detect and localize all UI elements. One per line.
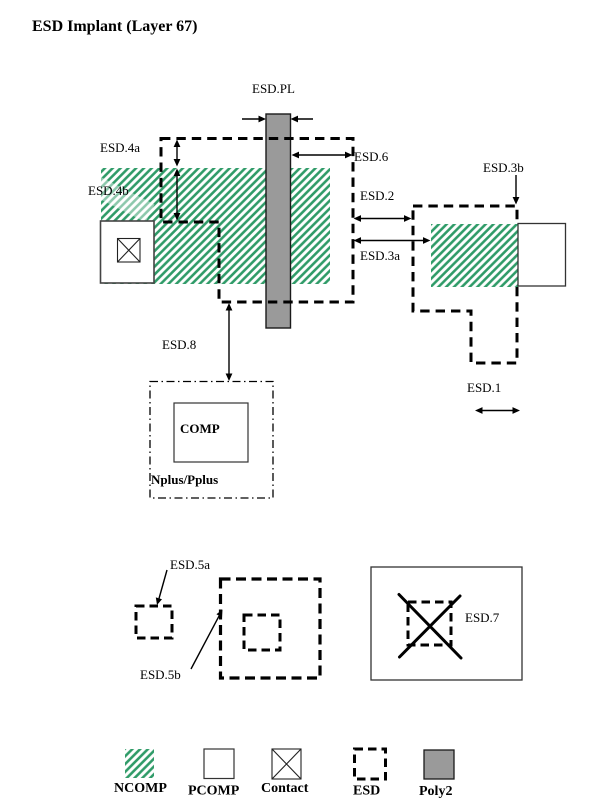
- arrow ESD.4a vertical: [174, 140, 181, 167]
- svg-text:ESD.5b: ESD.5b: [140, 667, 181, 682]
- svg-text:ESD.7: ESD.7: [465, 610, 500, 625]
- svg-text:ESD.3a: ESD.3a: [360, 248, 400, 263]
- svg-text:ESD.6: ESD.6: [354, 149, 389, 164]
- legend ESD swatch: [355, 749, 386, 779]
- PCOMP box left: [101, 221, 155, 283]
- arrow ESD.PL right: [291, 116, 314, 123]
- svg-text:ESD.2: ESD.2: [360, 188, 394, 203]
- svg-text:ESD.8: ESD.8: [162, 337, 196, 352]
- svg-text:COMP: COMP: [180, 421, 220, 436]
- NCOMP hatch region left: [101, 168, 330, 284]
- legend Contact swatch: [272, 749, 301, 779]
- legend NCOMP swatch: [125, 749, 154, 778]
- ESD.7 X cross: [399, 595, 461, 659]
- svg-text:ESD Implant (Layer 67): ESD Implant (Layer 67): [32, 18, 198, 35]
- svg-text:ESD.PL: ESD.PL: [252, 81, 295, 96]
- arrow ESD.2: [354, 215, 412, 222]
- svg-text:ESD: ESD: [353, 784, 380, 799]
- svg-text:ESD.4a: ESD.4a: [100, 140, 140, 155]
- contact in left PCOMP box: [118, 239, 141, 263]
- arrow ESD.8 vertical: [226, 303, 233, 381]
- legend Poly2 swatch: [424, 750, 454, 779]
- label highlight streak behind ESD.4b: [81, 172, 154, 223]
- arrow ESD.3b down: [513, 175, 520, 205]
- arrow ESD.5b: [191, 610, 223, 670]
- NCOMP hatch region right: [431, 224, 518, 287]
- ESD.7 outer solid box: [371, 567, 522, 680]
- arrow ESD.6: [292, 152, 353, 159]
- ESD.5b big dashed square: [221, 579, 321, 678]
- svg-text:NCOMP: NCOMP: [114, 781, 167, 796]
- ESD.5b inner dashed square: [244, 615, 280, 650]
- ESD dashed region right: [413, 206, 517, 363]
- svg-text:Contact: Contact: [261, 781, 309, 796]
- arrow ESD.4b vertical: [174, 169, 181, 221]
- PCOMP box right: [518, 224, 566, 287]
- svg-text:Nplus/Pplus: Nplus/Pplus: [151, 472, 218, 487]
- svg-text:ESD.5a: ESD.5a: [170, 557, 210, 572]
- arrow ESD.5a: [156, 570, 167, 605]
- poly2 bar: [266, 114, 291, 328]
- COMP box: [174, 403, 248, 462]
- svg-text:Poly2: Poly2: [419, 784, 452, 799]
- arrow ESD.1: [475, 407, 520, 414]
- svg-text:ESD.3b: ESD.3b: [483, 160, 524, 175]
- svg-text:PCOMP: PCOMP: [188, 784, 240, 799]
- svg-text:ESD.1: ESD.1: [467, 380, 501, 395]
- ESD.5a small dashed square: [136, 606, 172, 638]
- legend PCOMP swatch: [204, 749, 234, 779]
- ESD dashed region left: [161, 139, 353, 303]
- ESD.7 dashed square: [408, 602, 451, 645]
- arrow ESD.PL left: [242, 116, 266, 123]
- svg-text:ESD.4b: ESD.4b: [88, 183, 129, 198]
- arrow ESD.3a: [354, 237, 431, 244]
- Nplus/Pplus dash-dot box: [150, 382, 273, 499]
